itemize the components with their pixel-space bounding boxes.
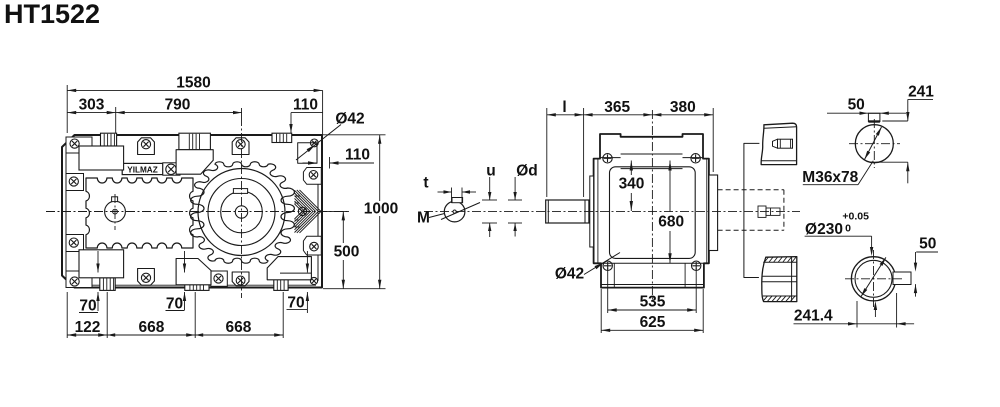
svg-text:70: 70 xyxy=(287,295,304,312)
input gear center circle xyxy=(105,201,126,222)
right edge pentagon top with screw xyxy=(303,168,321,185)
octagonal gear housing (wavy) xyxy=(191,162,295,263)
svg-text:668: 668 xyxy=(138,319,164,336)
svg-text:241.4: 241.4 xyxy=(794,307,833,324)
flange screws bottom xyxy=(603,261,612,270)
clamp bolt upper xyxy=(778,139,793,148)
housing inner edge bottom xyxy=(68,284,316,286)
output bore end view circles xyxy=(851,257,895,301)
dim 1580 xyxy=(66,85,68,133)
svg-text:110: 110 xyxy=(293,97,318,114)
bottom-left corner plate and screw xyxy=(66,271,92,288)
svg-text:Ø42: Ø42 xyxy=(555,266,584,283)
svg-text:535: 535 xyxy=(640,294,666,311)
dim 50 keyway top xyxy=(827,112,906,114)
dim 668 b xyxy=(195,334,283,336)
dim 122 xyxy=(67,334,107,336)
svg-text:340: 340 xyxy=(619,176,645,193)
chamber vertical center line xyxy=(114,194,116,230)
top-left corner plate and screw xyxy=(66,137,92,153)
top foot 2 (middle) xyxy=(179,133,211,150)
bottom foot 1 xyxy=(100,278,115,291)
crosshair input end xyxy=(849,143,900,145)
diameter diagonal output end xyxy=(861,257,886,296)
bottom pentagon lug 1 with screw xyxy=(138,269,155,286)
svg-text:1580: 1580 xyxy=(176,75,210,92)
svg-text:Ød: Ød xyxy=(516,163,538,180)
side view body outline xyxy=(594,134,709,288)
dims l / 365 / 380 xyxy=(546,108,548,197)
dim 680 xyxy=(669,161,671,213)
horizontal center line left view xyxy=(46,211,348,213)
svg-text:500: 500 xyxy=(334,244,360,261)
svg-text:+0.05: +0.05 xyxy=(842,211,869,223)
dim 668 a xyxy=(107,334,195,336)
svg-text:50: 50 xyxy=(919,236,936,253)
keyway flat on section xyxy=(452,198,463,203)
end bolt detail xyxy=(758,206,766,217)
gearbox housing top view: outer body xyxy=(62,135,322,288)
dim 110 right side xyxy=(303,162,318,164)
dim 625 xyxy=(600,289,602,333)
svg-text:380: 380 xyxy=(670,99,696,116)
dim 122 / 668 / 668 extension lines xyxy=(66,292,68,338)
svg-text:303: 303 xyxy=(79,97,105,114)
bearing circles xyxy=(198,169,285,256)
bottom foot 2 (middle) xyxy=(185,275,209,290)
svg-text:668: 668 xyxy=(225,319,251,336)
svg-text:M: M xyxy=(417,210,430,227)
dim 790 xyxy=(116,112,242,114)
input shaft xyxy=(546,200,589,223)
svg-text:680: 680 xyxy=(658,214,684,231)
bottom foot 3 xyxy=(274,278,288,291)
svg-text:YILMAZ: YILMAZ xyxy=(127,165,157,174)
top foot 3 xyxy=(272,133,292,142)
left edge plate screw upper xyxy=(66,174,84,191)
dim 70 arrows (feet) xyxy=(97,251,99,273)
diameter diagonal input end xyxy=(865,127,882,160)
bottom-right corner plate screw xyxy=(310,277,317,284)
bearing block top-middle xyxy=(176,150,213,175)
bottom pentagon lug 2 with screw xyxy=(232,272,249,286)
svg-text:Ø230: Ø230 xyxy=(805,221,843,238)
svg-text:241: 241 xyxy=(908,84,934,101)
top pentagon lug 2 with screw xyxy=(232,138,249,155)
output boss plate xyxy=(709,175,718,251)
svg-text:0: 0 xyxy=(845,223,851,235)
svg-text:u: u xyxy=(486,163,495,180)
bearing block bottom-left xyxy=(79,250,124,278)
center lines middle view xyxy=(651,110,653,300)
svg-text:1000: 1000 xyxy=(364,201,398,218)
svg-text:50: 50 xyxy=(848,97,865,114)
vertical center line through octagon xyxy=(241,117,243,298)
clamp ring lower half xyxy=(762,257,797,302)
keyway slot top xyxy=(868,113,880,121)
gear chamber inner rect xyxy=(610,167,696,259)
dim 1000 xyxy=(323,134,386,136)
bottom plate screw (small) xyxy=(211,271,228,286)
bearing block bottom-right xyxy=(267,257,311,280)
svg-text:70: 70 xyxy=(166,296,183,313)
svg-text:HT1522: HT1522 xyxy=(4,0,100,29)
crosshair output end xyxy=(845,278,903,280)
top-right corner plate xyxy=(298,143,317,164)
svg-text:122: 122 xyxy=(75,319,101,336)
fin screw xyxy=(298,207,306,215)
YILMAZ label plate xyxy=(122,163,163,174)
top pentagon lug 1 with screw xyxy=(138,138,155,155)
housing inner edge left xyxy=(65,150,67,274)
flange screws top xyxy=(603,154,612,163)
right edge pentagon bottom with screw xyxy=(303,236,321,255)
dim 500 xyxy=(323,210,349,212)
input gear keyway nub xyxy=(112,197,118,202)
svg-text:790: 790 xyxy=(165,97,191,114)
dim 535 xyxy=(607,268,609,313)
dim 340 xyxy=(630,161,632,176)
svg-text:t: t xyxy=(423,175,428,192)
flange split line xyxy=(600,157,621,159)
shaft bore keyway xyxy=(233,189,247,194)
clamp bracket xyxy=(744,143,760,277)
hollow output shaft (hidden) xyxy=(718,189,784,191)
housing inner edge right xyxy=(317,167,319,281)
dim 303 xyxy=(67,112,116,114)
bottom flange lines xyxy=(601,262,704,264)
bore keyway slot right xyxy=(893,272,911,285)
bearing block bottom-middle xyxy=(176,259,211,285)
bearing block top-left xyxy=(79,146,124,170)
svg-text:365: 365 xyxy=(604,99,630,116)
label side screw plate xyxy=(163,163,180,175)
dim 110 top xyxy=(291,112,323,114)
inner wall lines xyxy=(597,159,599,264)
clamp ring upper half xyxy=(761,123,796,164)
svg-text:l: l xyxy=(562,99,566,116)
svg-text:625: 625 xyxy=(640,314,666,331)
input shaft boss xyxy=(590,176,594,247)
left edge plate screw lower xyxy=(66,235,84,252)
cooling fins right edge (nested chevrons) xyxy=(300,190,322,212)
svg-text:70: 70 xyxy=(79,298,96,315)
svg-text:M36x78: M36x78 xyxy=(802,169,858,186)
finned cooling chamber (left, wavy) xyxy=(86,178,193,248)
shaft cross-section detail: circle M xyxy=(444,201,465,222)
svg-text:110: 110 xyxy=(345,147,370,164)
section diagonal xyxy=(441,203,480,220)
top recess lines xyxy=(621,153,683,155)
input shaft end view circle xyxy=(855,125,893,163)
top foot 1 xyxy=(101,133,117,146)
